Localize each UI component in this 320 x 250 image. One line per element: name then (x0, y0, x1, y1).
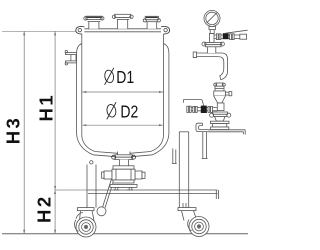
dimension H3 (23, 31, 25, 234)
relief tee body (217, 103, 224, 111)
gauge tee vertical (209, 33, 214, 42)
lid lip right (161, 26, 170, 34)
outlet neck (119, 160, 128, 166)
big clamp on stem (202, 42, 224, 47)
svg-text:D2: D2 (120, 102, 138, 122)
lid lip left (76, 26, 85, 34)
valve top flange (113, 166, 134, 169)
mount box (213, 124, 227, 127)
left caster (75, 208, 96, 237)
handle ball end (97, 207, 106, 216)
right vessel leg (172, 149, 177, 164)
svg-text:H1: H1 (35, 93, 56, 122)
pipe elbow down (219, 53, 228, 80)
relief valve right port (225, 92, 231, 96)
dimension H1 (54, 31, 56, 190)
extension line mid (55, 189, 88, 191)
right post (179, 132, 188, 208)
mount plate (210, 121, 229, 123)
label phi D2 (106, 102, 117, 119)
label phi D1 (104, 68, 115, 85)
nozzle N3 (right) (143, 16, 160, 29)
support rail right (208, 130, 246, 135)
extension line top (2, 30, 76, 32)
vessel dished bottom (82, 136, 164, 153)
relief bottom clamp (210, 112, 231, 117)
svg-text:D1: D1 (116, 67, 134, 87)
left branch small valve (183, 100, 217, 113)
bottom valve body (102, 169, 145, 180)
relief valve body (214, 86, 226, 103)
tee nozzle stem (208, 47, 216, 53)
vessel inner wall (82, 34, 164, 153)
valve bottom flange (113, 180, 134, 183)
pressure gauge stem (209, 26, 215, 33)
dimension H2 (54, 190, 56, 234)
relief valve top clamp (214, 83, 226, 86)
dim phi-D2 (82, 124, 163, 126)
outlet clamp (112, 155, 136, 160)
cart rail (88, 190, 219, 199)
right caster (178, 208, 209, 237)
nozzle N1 (left) (84, 16, 104, 29)
top-right horizontal pipe (193, 52, 222, 58)
ball valve branch right (214, 30, 248, 39)
bottom outlet pipe (118, 152, 130, 155)
svg-text:H3: H3 (3, 116, 24, 145)
ground line (2, 233, 248, 235)
valve handle rod (103, 169, 117, 207)
jacket outer wall (77, 44, 169, 157)
post top bolt (90, 161, 93, 164)
jacket nozzle (left side) (65, 50, 76, 65)
pressure gauge (204, 10, 220, 26)
nozzle N2 (center) (112, 14, 133, 28)
svg-text:H2: H2 (33, 194, 54, 223)
mount base flange (211, 127, 229, 130)
valve stand (110, 184, 137, 190)
rail end bracket (196, 123, 208, 131)
dim phi-D1 (82, 91, 163, 93)
mount neck (215, 117, 225, 122)
bracket post (202, 132, 208, 159)
vessel top plate (84, 29, 161, 32)
left post (87, 165, 96, 208)
